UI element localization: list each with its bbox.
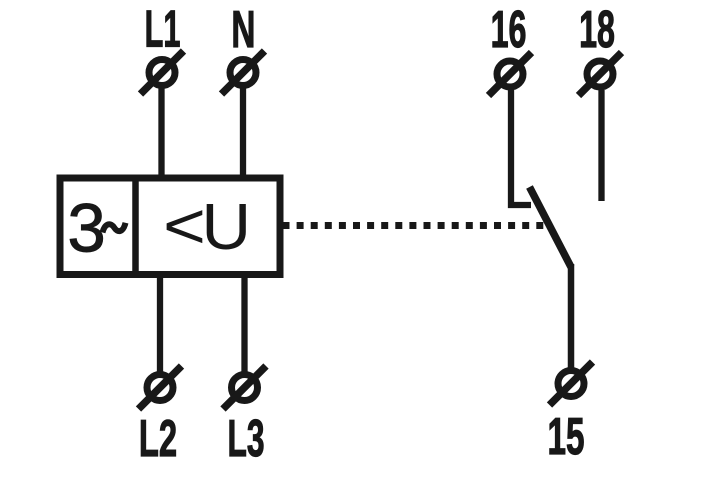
terminal 18 (579, 53, 622, 96)
value label 3~ (67, 190, 105, 267)
value label &lt;U (163, 189, 251, 264)
relay box U1 outline (60, 178, 280, 275)
terminal 15 (550, 362, 593, 405)
terminal 16 (489, 53, 532, 96)
dotted actuation link from relay to contact (283, 222, 544, 229)
svg-text:<: < (163, 189, 206, 262)
contact armature 15-16 (530, 187, 572, 267)
svg-text:N: N (231, 1, 255, 59)
relay box divider (132, 175, 139, 278)
terminal L2 (139, 366, 182, 409)
terminal L1 (141, 51, 184, 94)
value label tilde of 3~ (103, 223, 126, 233)
wire L1 to relay box (158, 86, 164, 180)
terminal N (222, 51, 265, 94)
svg-text:L3: L3 (227, 410, 264, 468)
svg-text:3: 3 (67, 190, 105, 267)
svg-text:L2: L2 (139, 411, 177, 468)
svg-text:16: 16 (491, 1, 527, 59)
svg-text:15: 15 (547, 408, 584, 466)
wire N to relay box (240, 86, 246, 180)
wire 18 fixed contact (598, 90, 604, 201)
svg-text:18: 18 (579, 1, 615, 59)
svg-text:U: U (201, 191, 251, 264)
wire relay box to L2 (157, 274, 163, 372)
wire relay box to L3 (241, 274, 247, 372)
terminal L3 (223, 366, 266, 409)
wire contact to 15 (568, 264, 575, 368)
svg-text:L1: L1 (145, 0, 181, 58)
wire 16 to contact pivot (511, 90, 531, 205)
